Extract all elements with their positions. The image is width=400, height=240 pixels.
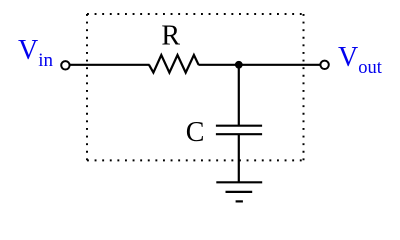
svg-text:Vout: Vout	[338, 42, 383, 78]
wire input terminal to resistor	[70, 64, 150, 66]
capacitor C	[216, 126, 262, 135]
resistor R	[149, 55, 199, 73]
output terminal (open circle)	[320, 61, 328, 69]
wire resistor to output terminal	[198, 64, 320, 66]
wire node to capacitor	[238, 65, 240, 126]
input terminal (open circle)	[61, 61, 69, 69]
dotted feedback box	[87, 14, 304, 160]
node junction dot	[235, 61, 243, 69]
svg-text:Vin: Vin	[18, 35, 54, 71]
svg-text:C: C	[186, 117, 205, 148]
svg-text:R: R	[161, 21, 180, 52]
ground	[216, 182, 262, 201]
wire capacitor to ground	[238, 134, 240, 182]
